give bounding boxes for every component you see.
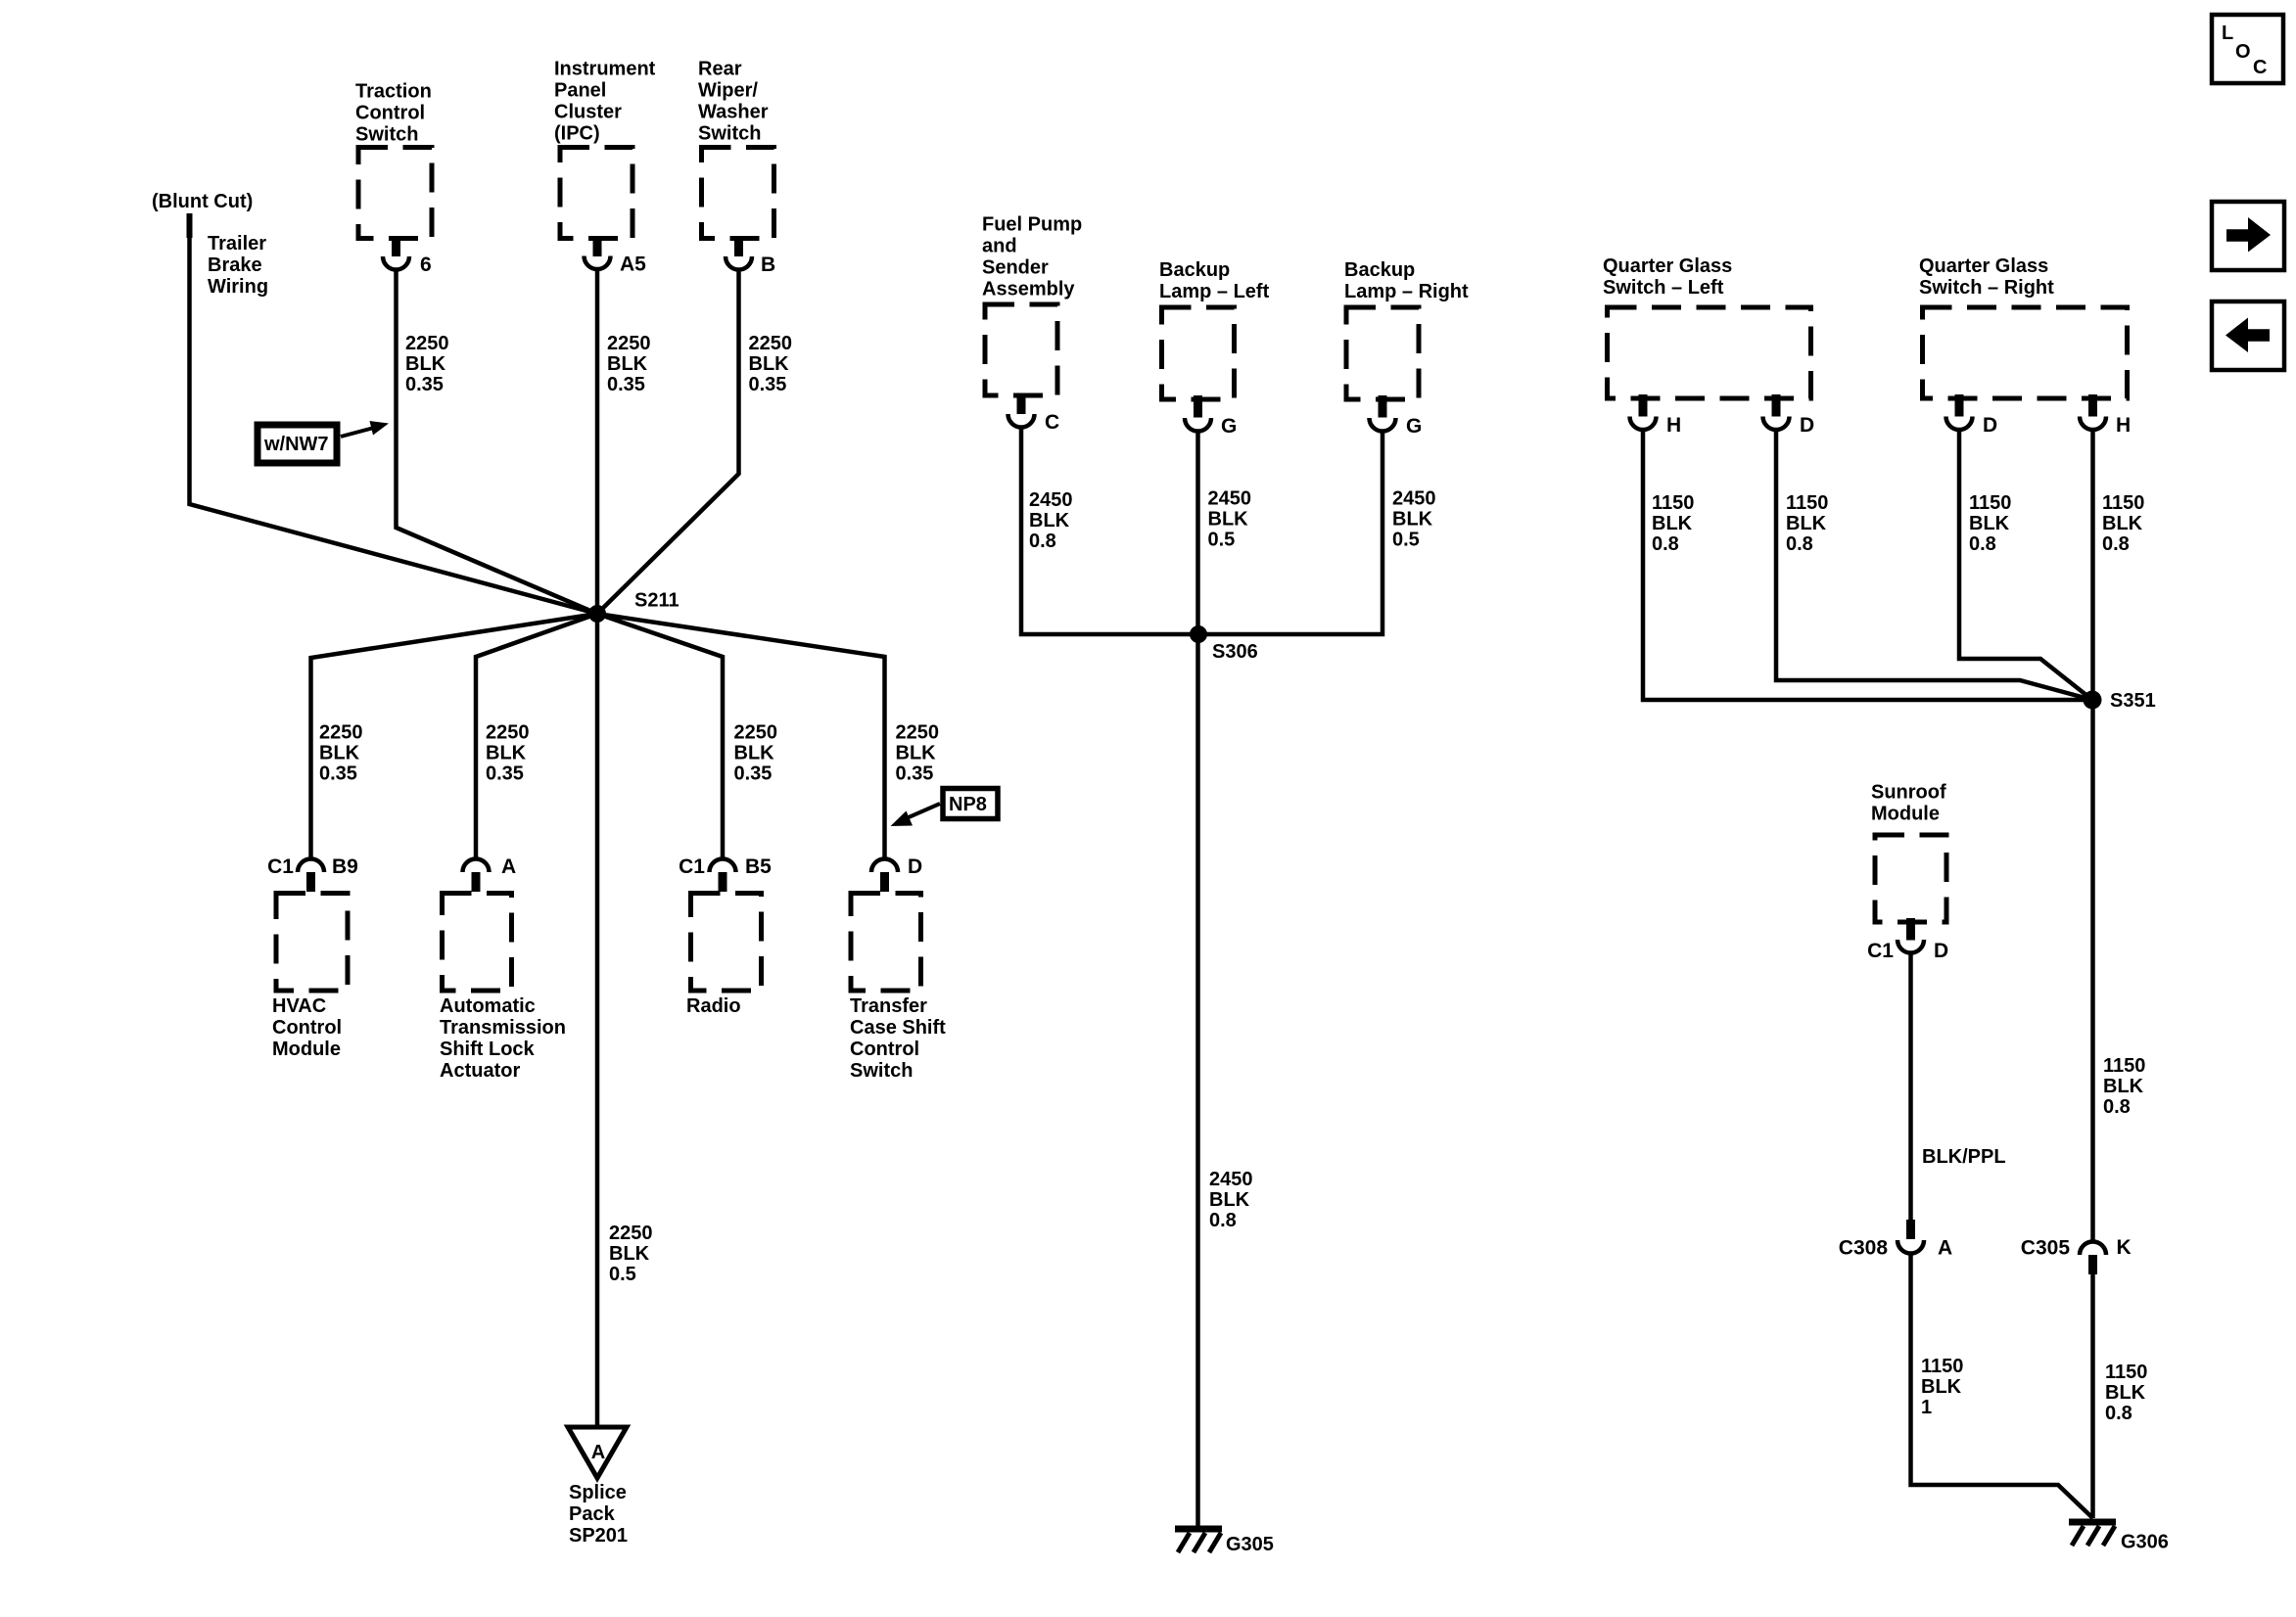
- component box Automatic Transmission Shift Lock Actuator: [443, 894, 512, 992]
- pin H of quarter glass switch right: [2088, 394, 2097, 417]
- svg-text:(Blunt Cut): (Blunt Cut): [152, 191, 253, 212]
- pin D of quarter glass switch right: [1955, 394, 1964, 417]
- svg-text:B5: B5: [745, 855, 772, 878]
- svg-text:A: A: [591, 1442, 605, 1463]
- svg-text:C1: C1: [1867, 940, 1894, 962]
- svg-text:C305: C305: [2021, 1237, 2071, 1260]
- component box Quarter Glass Switch Right: [1923, 307, 2128, 398]
- svg-text:O: O: [2235, 41, 2251, 63]
- svg-text:SunroofModule: SunroofModule: [1871, 782, 1946, 825]
- wire: sunroof module D to C308, BLK/PPL: [1908, 953, 1913, 1221]
- connector C1 B9 of HVAC control module: [298, 859, 324, 873]
- component box Quarter Glass Switch Left: [1608, 307, 1811, 398]
- svg-text:D: D: [908, 855, 922, 878]
- svg-text:A: A: [501, 855, 516, 878]
- legend left arrow box: [2212, 301, 2284, 370]
- svg-text:BLK/PPL: BLK/PPL: [1922, 1146, 2006, 1168]
- locator legend box LOC: [2212, 15, 2283, 83]
- pin C of fuel pump: [1017, 393, 1026, 414]
- wire: C305 K to G306, 1150 BLK 0.8: [2090, 1274, 2095, 1518]
- svg-text:A5: A5: [620, 254, 646, 276]
- wire: QG switch left D to S351: [1776, 430, 2092, 700]
- component box Traction Control Switch: [358, 148, 432, 239]
- svg-text:2250BLK0.35: 2250BLK0.35: [319, 722, 363, 785]
- svg-text:Quarter GlassSwitch – Right: Quarter GlassSwitch – Right: [1919, 255, 2054, 299]
- component box Fuel Pump and Sender Assembly: [985, 304, 1057, 395]
- arrow from NP8 box to wire: [909, 804, 940, 817]
- pin 6 of traction control switch: [392, 237, 400, 257]
- svg-text:S351: S351: [2110, 690, 2156, 712]
- svg-text:2250BLK0.35: 2250BLK0.35: [896, 722, 940, 785]
- component box Instrument Panel Cluster: [560, 148, 633, 239]
- pin C1 D of sunroof module: [1906, 918, 1915, 941]
- ground G306: [2069, 1519, 2116, 1526]
- svg-text:D: D: [1983, 414, 1997, 437]
- option box w/NW7: [258, 425, 337, 463]
- wire: backup lamp left through S306 to G305: [1195, 432, 1200, 1528]
- connector A of shift lock actuator: [463, 859, 490, 873]
- svg-text:B: B: [761, 254, 775, 276]
- svg-text:H: H: [2116, 414, 2131, 437]
- splice S306: [1190, 625, 1207, 643]
- svg-text:w/NW7: w/NW7: [263, 434, 329, 455]
- pin A5 of IPC: [593, 237, 602, 257]
- wire: S211 to radio C1 B5: [597, 614, 723, 859]
- splice S351: [2084, 691, 2102, 710]
- svg-text:C: C: [1045, 411, 1059, 434]
- component box Backup Lamp Left: [1162, 307, 1235, 399]
- svg-text:B9: B9: [332, 855, 358, 878]
- blunt cut stub: [187, 213, 193, 238]
- svg-text:D: D: [1934, 940, 1948, 962]
- component box Sunroof Module: [1875, 835, 1946, 922]
- svg-text:2250BLK0.35: 2250BLK0.35: [749, 333, 793, 395]
- svg-text:L: L: [2222, 23, 2233, 44]
- svg-text:G: G: [1406, 415, 1422, 438]
- connector D of transfer case shift control switch: [871, 859, 898, 873]
- pin G of backup lamp left: [1194, 395, 1202, 418]
- option box NP8: [943, 789, 998, 819]
- svg-text:TrailerBrakeWiring: TrailerBrakeWiring: [208, 233, 268, 298]
- wire: S211 to shift lock actuator A: [476, 614, 597, 859]
- wire: QG switch left H to S351, 1150 BLK 0.8: [1643, 430, 2092, 700]
- svg-text:H: H: [1666, 414, 1681, 437]
- svg-text:2250BLK0.35: 2250BLK0.35: [734, 722, 778, 785]
- svg-text:NP8: NP8: [949, 794, 987, 815]
- pin B of rear wiper/washer switch: [734, 237, 743, 257]
- svg-text:K: K: [2117, 1236, 2132, 1259]
- svg-text:C1: C1: [679, 855, 705, 878]
- pin G of backup lamp right: [1379, 395, 1387, 418]
- svg-text:2250BLK0.35: 2250BLK0.35: [486, 722, 530, 785]
- component box Transfer Case Shift Control Switch: [851, 894, 921, 992]
- svg-text:G305: G305: [1226, 1534, 1274, 1555]
- arrow from w/NW7 box: [341, 429, 372, 438]
- svg-text:C: C: [2253, 57, 2267, 78]
- wire: C308 A to G306, 1150 BLK 1: [1911, 1253, 2093, 1518]
- wire: fuel pump C to S306: [1021, 428, 1198, 635]
- wire: backup lamp right to S306: [1198, 432, 1382, 635]
- wire: trailer brake wiring to S211: [190, 238, 598, 614]
- component box Radio: [691, 894, 762, 992]
- svg-text:D: D: [1800, 414, 1814, 437]
- inline connector C308 terminal A: [1906, 1220, 1915, 1239]
- pin D of quarter glass switch left: [1772, 394, 1781, 417]
- pin H of quarter glass switch left: [1639, 394, 1648, 417]
- legend right arrow box: [2212, 202, 2284, 270]
- wire: QG switch right D to S351: [1959, 430, 2092, 700]
- ground G305: [1175, 1526, 1222, 1533]
- connector C1 B5 of radio: [710, 859, 736, 873]
- splice pack SP201 triangle terminal A: [568, 1427, 627, 1478]
- svg-text:Radio: Radio: [686, 995, 741, 1017]
- svg-text:G: G: [1221, 415, 1237, 438]
- wire: S211 to HVAC C1 B9: [311, 614, 598, 859]
- wire: traction switch to S211: [397, 270, 598, 615]
- component box HVAC Control Module: [276, 894, 348, 992]
- svg-text:Quarter GlassSwitch – Left: Quarter GlassSwitch – Left: [1603, 255, 1732, 299]
- svg-text:G306: G306: [2121, 1532, 2169, 1553]
- svg-text:6: 6: [420, 254, 432, 276]
- splice S211: [588, 605, 606, 623]
- component box Rear Wiper/Washer Switch: [702, 148, 774, 239]
- svg-text:2250BLK0.35: 2250BLK0.35: [405, 333, 449, 395]
- component box Backup Lamp Right: [1346, 307, 1419, 399]
- svg-text:S211: S211: [634, 590, 679, 612]
- svg-text:C308: C308: [1839, 1237, 1889, 1260]
- wire: S211 to transfer case switch D: [597, 614, 885, 859]
- wire: IPC A5 through S211 to splice pack, 2250 BLK: [595, 269, 600, 1427]
- svg-text:A: A: [1938, 1237, 1952, 1260]
- wire: rear wiper switch to S211: [597, 270, 739, 615]
- svg-text:C1: C1: [267, 855, 294, 878]
- wire: QG switch right H through S351 to C305: [2090, 430, 2095, 1241]
- inline connector C305 terminal K: [2080, 1242, 2106, 1256]
- svg-text:2250BLK0.35: 2250BLK0.35: [607, 333, 651, 395]
- svg-text:S306: S306: [1212, 641, 1258, 663]
